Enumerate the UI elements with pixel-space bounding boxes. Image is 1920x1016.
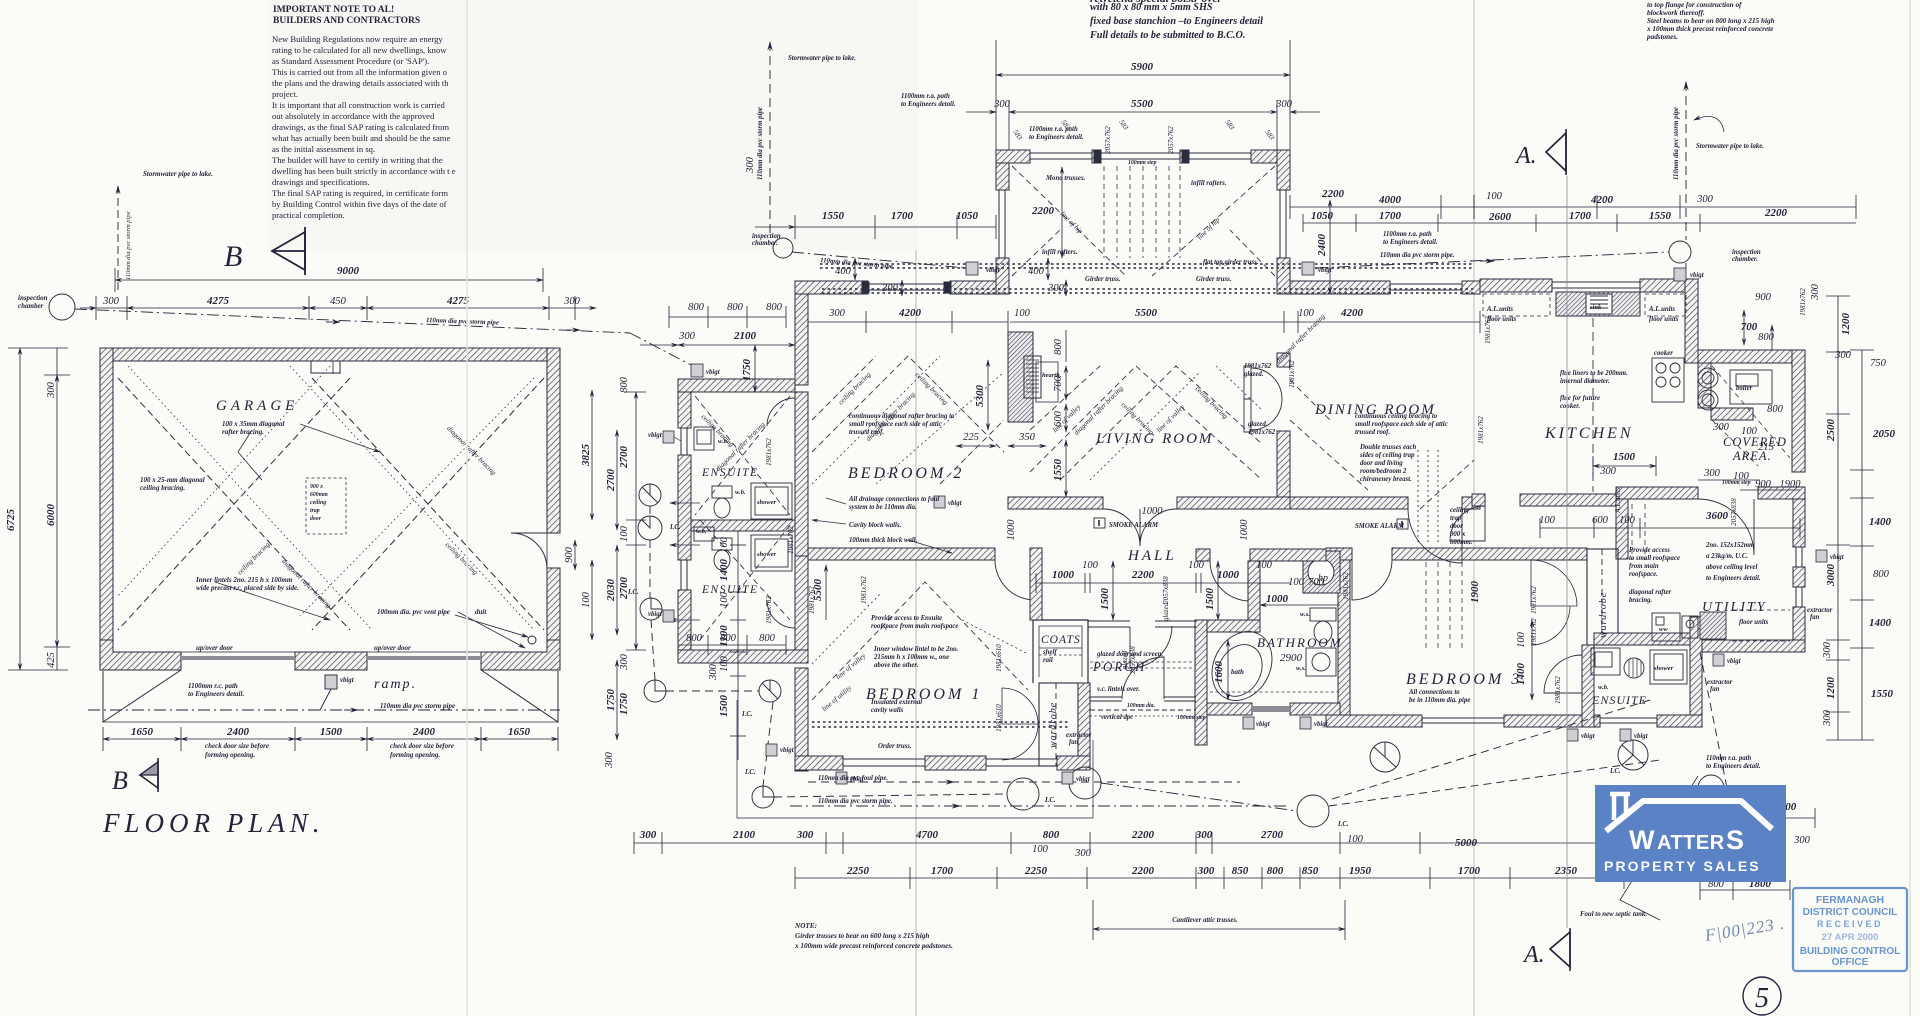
bracing: garage diagonal dashed X left [118, 378, 350, 630]
svg-text:1950: 1950 [1349, 865, 1372, 877]
svg-text:vbigt: vbigt [1830, 554, 1845, 561]
svg-text:PROPERTY SALES: PROPERTY SALES [1604, 858, 1761, 874]
svg-text:2500: 2500 [1825, 419, 1837, 443]
chimney [1610, 794, 1630, 820]
svg-text:A.: A. [1514, 143, 1537, 169]
dim 800 wing row [669, 316, 786, 318]
svg-text:BEDROOM 3: BEDROOM 3 [1406, 671, 1522, 688]
svg-text:800: 800 [1873, 569, 1890, 580]
svg-text:GARAGE: GARAGE [216, 398, 298, 414]
svg-text:100: 100 [1288, 577, 1305, 588]
svg-text:diagonal rafter bracing: diagonal rafter bracing [714, 420, 767, 473]
svg-text:Steel beams to bear on 800 lon: Steel beams to bear on 800 long x 215 hi… [1647, 17, 1775, 25]
svg-text:6725: 6725 [5, 509, 17, 532]
svg-text:Provide access to Ensuite: Provide access to Ensuite [871, 615, 942, 622]
dim 700/800 right of covered [1743, 310, 1745, 345]
door arc: bathroom [1210, 561, 1250, 601]
right column dim lines [1837, 296, 1839, 740]
svg-text:583: 583 [1263, 128, 1276, 142]
svg-text:750: 750 [1870, 358, 1887, 369]
garage dim labels [5, 265, 617, 769]
smoke alarm dining [1397, 519, 1408, 529]
svg-text:rating to be calculated for al: rating to be calculated for all new dwel… [272, 45, 447, 55]
svg-text:vbigt: vbigt [948, 500, 963, 507]
door arc: ensuite2 [767, 600, 795, 628]
svg-text:w.b.: w.b. [1598, 684, 1609, 691]
svg-text:3000: 3000 [1825, 564, 1837, 588]
svg-text:UTILITY: UTILITY [1702, 600, 1767, 615]
svg-text:2057x762: 2057x762 [1167, 126, 1175, 154]
svg-text:1550: 1550 [1871, 688, 1894, 700]
storm drain dash-dot to house [75, 309, 630, 333]
svg-text:1981x762: 1981x762 [765, 596, 773, 624]
svg-text:600: 600 [1053, 410, 1064, 427]
svg-text:300: 300 [881, 283, 899, 294]
svg-text:cooker.: cooker. [1560, 403, 1580, 410]
stormwater pipe at bay left [769, 42, 771, 238]
svg-text:I.C.: I.C. [1609, 768, 1621, 775]
svg-text:vbigt: vbigt [1076, 776, 1091, 783]
svg-text:100: 100 [1486, 191, 1503, 202]
ramp splay left [103, 670, 181, 722]
wall: bay top [996, 150, 1030, 163]
svg-text:Stormwater pipe to lake.: Stormwater pipe to lake. [143, 170, 213, 178]
svg-text:1981x762: 1981x762 [860, 576, 868, 604]
svg-text:wardrobe: wardrobe [1048, 702, 1059, 748]
svg-text:practical completion.: practical completion. [272, 210, 345, 220]
door arc: porch inner door [1130, 626, 1172, 668]
wall: bathroom bottom [1207, 703, 1252, 715]
svg-text:continuous ceiling bracing to: continuous ceiling bracing to [1355, 413, 1438, 420]
svg-text:2700: 2700 [618, 446, 630, 470]
drain: diagonal bathroom to br3 [1329, 700, 1660, 806]
svg-text:trap: trap [1450, 515, 1462, 522]
svg-text:All connections to: All connections to [1408, 689, 1460, 696]
svg-text:Inner window lintel to be 2no.: Inner window lintel to be 2no. [873, 646, 959, 653]
svg-text:sides of ceiling trap: sides of ceiling trap [1359, 452, 1415, 459]
svg-text:B: B [224, 240, 242, 273]
wall: covered area inner step [1698, 363, 1711, 408]
svg-text:out absolutely in accordance w: out absolutely in accordance with the ap… [272, 111, 435, 121]
svg-text:line of valley: line of valley [1155, 402, 1187, 434]
svg-text:door and living: door and living [1360, 460, 1403, 467]
svg-text:2057x838: 2057x838 [1162, 576, 1170, 604]
garage services [49, 186, 630, 710]
svg-text:2700: 2700 [618, 577, 630, 601]
svg-text:blockwork thereoff.: blockwork thereoff. [1647, 9, 1705, 17]
svg-text:inspection: inspection [752, 233, 781, 240]
svg-text:2400: 2400 [1316, 234, 1328, 258]
svg-text:forming opening.: forming opening. [390, 751, 440, 759]
svg-text:300: 300 [1275, 99, 1293, 110]
wall: BR1/BR2 divider [808, 548, 995, 560]
svg-text:100mm dia.: 100mm dia. [1127, 703, 1155, 709]
svg-text:700: 700 [1741, 321, 1758, 333]
wall: kitchen top [1480, 279, 1552, 292]
garage text labels [18, 170, 487, 759]
svg-text:100: 100 [1256, 560, 1273, 571]
svg-text:800: 800 [1267, 865, 1284, 877]
svg-text:I.C.: I.C. [669, 524, 681, 531]
svg-text:300: 300 [1822, 709, 1833, 727]
faint fold right edge [1909, 0, 1911, 1016]
svg-text:2400: 2400 [226, 726, 250, 738]
svg-text:vbigt: vbigt [1690, 272, 1705, 279]
svg-text:1400: 1400 [1869, 617, 1892, 629]
wall: utility bottom [1692, 640, 1805, 652]
leaders for wall notes [812, 520, 846, 524]
girder truss band living top [820, 264, 1474, 268]
bracing: bedroom2 chevrons [812, 356, 1004, 452]
svg-text:as the initial assessment in s: as the initial assessment in sq. [272, 144, 375, 154]
svg-text:4000: 4000 [1378, 194, 1402, 206]
svg-text:inspection: inspection [18, 294, 48, 302]
drain enclosure outline [737, 700, 1093, 818]
svg-text:ENSUITE: ENSUITE [701, 467, 759, 479]
svg-text:1500: 1500 [320, 726, 343, 738]
svg-text:900: 900 [564, 546, 575, 563]
svg-text:300: 300 [828, 308, 846, 319]
door arc: kitchen entry [1450, 506, 1485, 541]
ic circle left 1 [639, 484, 661, 506]
svg-text:110mm dia pvc storm pipe: 110mm dia pvc storm pipe [757, 107, 764, 180]
wall: dining south [1290, 497, 1408, 509]
svg-text:up/over door: up/over door [374, 644, 411, 652]
dim 300/2100 wing row [678, 344, 795, 346]
wall: BR1 east / hall west [1030, 548, 1042, 620]
svg-text:300: 300 [619, 653, 630, 671]
roof line [1606, 801, 1772, 831]
svg-text:4700: 4700 [915, 829, 939, 841]
kitchen sink unit [1556, 292, 1640, 316]
svg-text:fan: fan [1710, 686, 1720, 693]
svg-text:1981x610: 1981x610 [995, 644, 1003, 672]
svg-text:110mm dia pvc storm pipe.: 110mm dia pvc storm pipe. [1380, 252, 1455, 259]
svg-text:HALL: HALL [1127, 548, 1177, 564]
svg-text:1981x762: 1981x762 [1530, 618, 1538, 646]
svg-text:SMOKE ALARM: SMOKE ALARM [1355, 523, 1405, 530]
svg-text:glazed: glazed [1121, 650, 1129, 669]
dim rows bottom centre row1 [634, 842, 1700, 844]
svg-text:3600: 3600 [1705, 510, 1729, 522]
svg-text:infill rafters.: infill rafters. [1042, 249, 1078, 256]
window: bedroom2 north [868, 284, 950, 290]
dim right of garage verticals [591, 390, 593, 520]
dashdot main run top right [1316, 252, 1669, 268]
wall: utility top [1616, 487, 1698, 499]
fixture: ensuite2 shower [751, 535, 792, 571]
svg-text:vertical dpc: vertical dpc [1101, 714, 1133, 721]
svg-text:583: 583 [1117, 118, 1130, 132]
svg-text:100: 100 [1347, 834, 1364, 845]
svg-text:1981x762: 1981x762 [1244, 363, 1272, 370]
svg-text:ceiling bracing: ceiling bracing [914, 371, 950, 407]
svg-text:1981x762: 1981x762 [1477, 416, 1485, 444]
wall: kitchen right [1685, 279, 1698, 363]
svg-text:800: 800 [1043, 829, 1060, 841]
wall: ensuite divider [691, 520, 795, 531]
svg-text:100: 100 [581, 591, 592, 608]
svg-text:vbigt: vbigt [1581, 733, 1596, 740]
svg-text:1750: 1750 [741, 359, 753, 382]
wall: utility west upper [1616, 499, 1628, 559]
svg-text:roofspace from main roofspace: roofspace from main roofspace [871, 623, 958, 630]
ic circle right low [1698, 775, 1724, 801]
svg-text:PORCH: PORCH [1092, 659, 1146, 674]
svg-text:A.: A. [1522, 942, 1545, 968]
svg-text:shower: shower [1653, 665, 1674, 672]
svg-text:Stormwater pipe to lake.: Stormwater pipe to lake. [788, 55, 856, 62]
svg-text:110mm dia pvc storm pipe: 110mm dia pvc storm pipe [1673, 107, 1680, 180]
wall: ensuite south [678, 650, 808, 663]
svg-text:1700: 1700 [891, 210, 914, 222]
wall: garage right lower [547, 568, 560, 654]
svg-text:rafter bracing.: rafter bracing. [222, 428, 264, 436]
dim kitchen 3600 row [1540, 527, 1800, 529]
svg-text:100: 100 [1014, 308, 1031, 319]
svg-text:duit: duit [475, 608, 487, 616]
svg-text:100 x 35mm diagonal: 100 x 35mm diagonal [222, 420, 284, 428]
svg-text:DISTRICT COUNCIL: DISTRICT COUNCIL [1803, 907, 1897, 918]
svg-text:flat top girder truss.: flat top girder truss. [1203, 259, 1259, 266]
svg-text:The builder will have to certi: The builder will have to certify in writ… [272, 155, 443, 165]
wall: bedroom3 bottom [1326, 715, 1422, 727]
cantilever bracket [1093, 928, 1345, 930]
section marker B top [224, 227, 305, 275]
svg-text:chamber.: chamber. [1732, 256, 1758, 263]
svg-text:100mm step: 100mm step [1177, 715, 1206, 721]
fixture: ensuite2 wc [712, 538, 732, 550]
section marker A bottom [1522, 928, 1570, 971]
svg-text:300: 300 [102, 296, 120, 307]
svg-text:583: 583 [1011, 128, 1024, 142]
dim 100/5500/100/4200 row living (continues bedroom2 row) [1010, 321, 1480, 323]
wall: garage bottom mid stub [295, 652, 367, 670]
svg-text:1700: 1700 [931, 865, 954, 877]
ic circle under br1 b [1069, 767, 1101, 799]
svg-text:IMPORTANT NOTE TO AL!: IMPORTANT NOTE TO AL! [273, 5, 394, 15]
ramp baseline [103, 721, 558, 723]
wardrobe doors BR1 [1002, 688, 1038, 760]
svg-text:bath: bath [1231, 668, 1244, 676]
wall: covered area top [1698, 350, 1805, 363]
bracing: kitchen centre line [1592, 318, 1594, 492]
svg-text:300: 300 [1599, 466, 1617, 477]
svg-text:Girder truss.: Girder truss. [1196, 276, 1232, 283]
svg-text:300: 300 [1712, 422, 1730, 433]
svg-text:infill rafters.: infill rafters. [1191, 180, 1227, 187]
svg-text:glazed: glazed [1162, 602, 1170, 621]
ramp splay right [481, 670, 558, 722]
svg-text:by Building Control within fiv: by Building Control within five days of … [272, 199, 447, 209]
svg-text:2200: 2200 [1131, 569, 1155, 581]
svg-text:300: 300 [1074, 848, 1092, 859]
svg-text:1000: 1000 [1006, 519, 1017, 541]
vent pipe arrow to corner [455, 615, 528, 637]
dim 1000 bathroom [1260, 604, 1340, 606]
dim 400/300 girder [854, 258, 856, 280]
svg-text:retvetend special bolstr over: retvetend special bolstr over [1090, 0, 1222, 5]
svg-text:cavity walls: cavity walls [871, 707, 904, 714]
bracing: bedroom3 rails dashed [1426, 562, 1462, 650]
wall: ensuiteR west/top [1582, 645, 1594, 727]
wall: garage right upper [547, 348, 560, 533]
svg-text:300: 300 [796, 829, 814, 841]
svg-text:100: 100 [1619, 515, 1636, 526]
svg-text:583: 583 [1223, 118, 1236, 132]
svg-text:1050: 1050 [1311, 210, 1334, 222]
svg-text:400: 400 [1028, 266, 1045, 277]
svg-text:100: 100 [1082, 560, 1099, 571]
svg-text:300: 300 [1197, 865, 1215, 877]
svg-text:300: 300 [1834, 350, 1852, 361]
svg-text:800: 800 [1758, 332, 1775, 343]
svg-text:flue liners to be 200mm.: flue liners to be 200mm. [1560, 370, 1628, 377]
svg-text:vbigt: vbigt [1318, 267, 1333, 274]
svg-text:1550: 1550 [1649, 210, 1672, 222]
svg-text:1981x762: 1981x762 [1342, 572, 1350, 600]
svg-text:800: 800 [619, 376, 630, 393]
dim verticals living left 800/700/600/1550 [1065, 330, 1067, 362]
ceiling trap door dashed box [306, 478, 346, 534]
svg-text:to Engineers detail.: to Engineers detail. [188, 690, 244, 698]
svg-text:ENSUITE: ENSUITE [1591, 693, 1647, 707]
storm pipe vertical kitchen [1685, 82, 1687, 240]
svg-text:1981x762: 1981x762 [1554, 676, 1562, 704]
fixture: ensuiteR shower [1650, 650, 1687, 684]
dim: left verticals [19, 348, 21, 670]
svg-text:vbigt: vbigt [850, 776, 865, 783]
svg-text:check door size before: check door size before [205, 742, 269, 750]
svg-text:900: 900 [1755, 292, 1772, 303]
vbigt box under garage mid stub [325, 675, 337, 689]
hall dim row [1036, 582, 1290, 584]
svg-text:1700: 1700 [1379, 210, 1402, 222]
svg-text:300: 300 [1696, 194, 1714, 205]
svg-text:1981x762: 1981x762 [1288, 360, 1296, 388]
bracing: covered area diagonal [1712, 366, 1790, 458]
svg-text:100mm step: 100mm step [1128, 160, 1157, 166]
svg-text:5300: 5300 [974, 385, 986, 408]
svg-text:110mm dia pvc storm pipe: 110mm dia pvc storm pipe [426, 317, 499, 327]
svg-text:1500: 1500 [1099, 588, 1111, 611]
svg-text:1650: 1650 [508, 726, 531, 738]
svg-text:dwelling has been built strict: dwelling has been built strictly in acco… [272, 166, 456, 176]
svg-text:room/bedroom 2: room/bedroom 2 [1360, 468, 1407, 475]
kitchen wall units dashed [1483, 294, 1550, 316]
svg-text:as Standard Assessment Procedu: as Standard Assessment Procedure (or 'SA… [272, 56, 429, 66]
svg-text:300: 300 [563, 296, 581, 307]
door arc: bedroom3 [1352, 560, 1392, 600]
svg-text:chiraneney breast.: chiraneney breast. [1360, 476, 1412, 483]
svg-text:fan: fan [1069, 739, 1079, 746]
svg-text:Foul to new septic tank.: Foul to new septic tank. [1580, 911, 1647, 918]
vbigt kitchen pipe [1674, 268, 1686, 281]
note block: builders note top-left [272, 5, 456, 220]
svg-text:1400: 1400 [718, 559, 730, 582]
svg-text:floor units: floor units [1649, 316, 1679, 323]
svg-text:100: 100 [719, 591, 730, 608]
svg-text:to Engineers detail.: to Engineers detail. [1706, 575, 1761, 582]
svg-text:F|00|223 .: F|00|223 . [1703, 914, 1787, 946]
svg-text:1500: 1500 [1613, 451, 1636, 463]
svg-text:ceiling bracing: ceiling bracing [236, 540, 272, 576]
wall: bathroom entry Z horizontal [1195, 620, 1260, 632]
bracing: garage diagonal dotted X left [118, 366, 372, 630]
fixture: utility appliance [1700, 612, 1726, 639]
svg-text:Mono trusses.: Mono trusses. [1045, 175, 1086, 182]
porch step dashes [1090, 709, 1196, 711]
svg-text:800: 800 [688, 302, 705, 313]
section marker A top [1514, 129, 1566, 175]
bracing: utility dashes [1632, 504, 1645, 560]
svg-text:Order truss.: Order truss. [878, 743, 912, 750]
svg-text:1981x762: 1981x762 [765, 438, 773, 466]
ic circle under br1 [1007, 778, 1039, 810]
svg-text:1981x762: 1981x762 [1530, 586, 1538, 614]
fixture: bathroom basin [1306, 648, 1336, 676]
svg-text:continuous diagonal rafter bra: continuous diagonal rafter bracing to [849, 413, 955, 420]
fixture: ensuite2 basin [694, 527, 714, 541]
fixture: utility sink small [1682, 616, 1698, 638]
wall: ensuite west [678, 392, 691, 428]
dim rows top right [1290, 206, 1856, 208]
door: garage side door arc [511, 533, 547, 568]
door arcs: glazed living-dining [1251, 368, 1282, 430]
garage run end vbigt [630, 333, 693, 366]
svg-text:400: 400 [835, 266, 852, 277]
svg-text:27 APR 2000: 27 APR 2000 [1822, 932, 1879, 943]
door arc: ensuiteR [1544, 655, 1582, 693]
svg-text:BATHROOM: BATHROOM [1257, 635, 1343, 650]
svg-text:to top flange for construction: to top flange for construction of [1647, 1, 1742, 9]
wardrobe doors BR3 [1531, 560, 1577, 645]
svg-text:extractor: extractor [1807, 607, 1833, 614]
svg-text:Stormwater pipe to lake.: Stormwater pipe to lake. [1696, 143, 1764, 150]
svg-text:1100mm r.a. path: 1100mm r.a. path [901, 93, 950, 100]
svg-text:I.C.: I.C. [741, 711, 753, 718]
svg-text:wardrobe: wardrobe [1598, 592, 1609, 638]
svg-text:to Engineers detail.: to Engineers detail. [1383, 239, 1438, 246]
fixture: bath [1200, 621, 1283, 711]
svg-text:110mm dia pvc storm pipe.: 110mm dia pvc storm pipe. [818, 798, 893, 805]
svg-text:vbigt: vbigt [648, 611, 663, 618]
svg-text:vbigt: vbigt [986, 267, 1001, 274]
door arc: ensuite1 from BR2 [767, 398, 795, 426]
wall: kitchen south [1472, 494, 1485, 506]
svg-text:system to be 110mm dia.: system to be 110mm dia. [848, 504, 917, 511]
svg-text:above the other.: above the other. [874, 662, 919, 669]
svg-text:6000: 6000 [45, 504, 57, 527]
svg-text:Cavity block walls.: Cavity block walls. [849, 522, 902, 529]
wall: ensuite north (wing protrusion) [678, 379, 795, 392]
svg-text:Provide access: Provide access [1629, 547, 1670, 554]
vertical 2400 bay right outside [1329, 200, 1331, 294]
svg-text:225: 225 [963, 432, 979, 443]
note: steel beams top-right [1646, 1, 1775, 41]
svg-text:850: 850 [1302, 865, 1319, 877]
svg-text:ATTER: ATTER [1657, 832, 1725, 854]
svg-text:Girder trusses to bear on 600: Girder trusses to bear on 600 long x 215… [795, 932, 929, 940]
svg-text:1700: 1700 [1458, 865, 1481, 877]
wall: porch north glazed screen [1088, 621, 1196, 627]
svg-text:3825: 3825 [580, 444, 592, 468]
svg-text:100: 100 [1516, 631, 1527, 648]
dim kitchen 1500 [1593, 465, 1656, 467]
svg-text:A.L.units: A.L.units [1614, 487, 1622, 514]
svg-text:100 x 25-mm diagonal: 100 x 25-mm diagonal [140, 476, 205, 484]
svg-text:BEDROOM 2: BEDROOM 2 [848, 465, 964, 482]
